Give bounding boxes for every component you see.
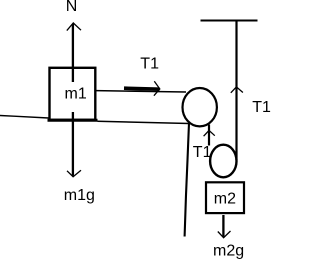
svg-text:N: N (66, 0, 78, 15)
tension arrow T1 up (left of small pulley) (204, 125, 215, 146)
svg-text:m1: m1 (65, 86, 87, 103)
rope ceiling to small pulley (235, 21, 237, 161)
weight arrow m2g (218, 215, 231, 238)
tension arrow T1 (thick, rightward) (124, 81, 160, 96)
svg-text:m2: m2 (214, 191, 236, 208)
weight arrow m1g (67, 112, 81, 177)
svg-text:m1g: m1g (64, 187, 95, 204)
table line right (98, 121, 190, 123)
mass m1 box (50, 68, 96, 120)
small movable pulley (210, 145, 236, 178)
normal force arrow N (67, 23, 81, 82)
svg-text:T1: T1 (140, 56, 159, 73)
table line left (0, 116, 49, 119)
svg-text:T1: T1 (193, 144, 212, 161)
svg-text:m2g: m2g (213, 242, 244, 259)
rope m1 to big pulley (97, 91, 187, 92)
svg-text:T1: T1 (252, 99, 271, 116)
big pulley (183, 88, 217, 126)
m1 box thick bottom edge (48, 119, 98, 122)
ceiling line (201, 20, 258, 22)
tension arrowhead up on ceiling rope (231, 87, 243, 93)
mass m2 box (206, 182, 244, 213)
rope hanging from big pulley (185, 123, 189, 237)
